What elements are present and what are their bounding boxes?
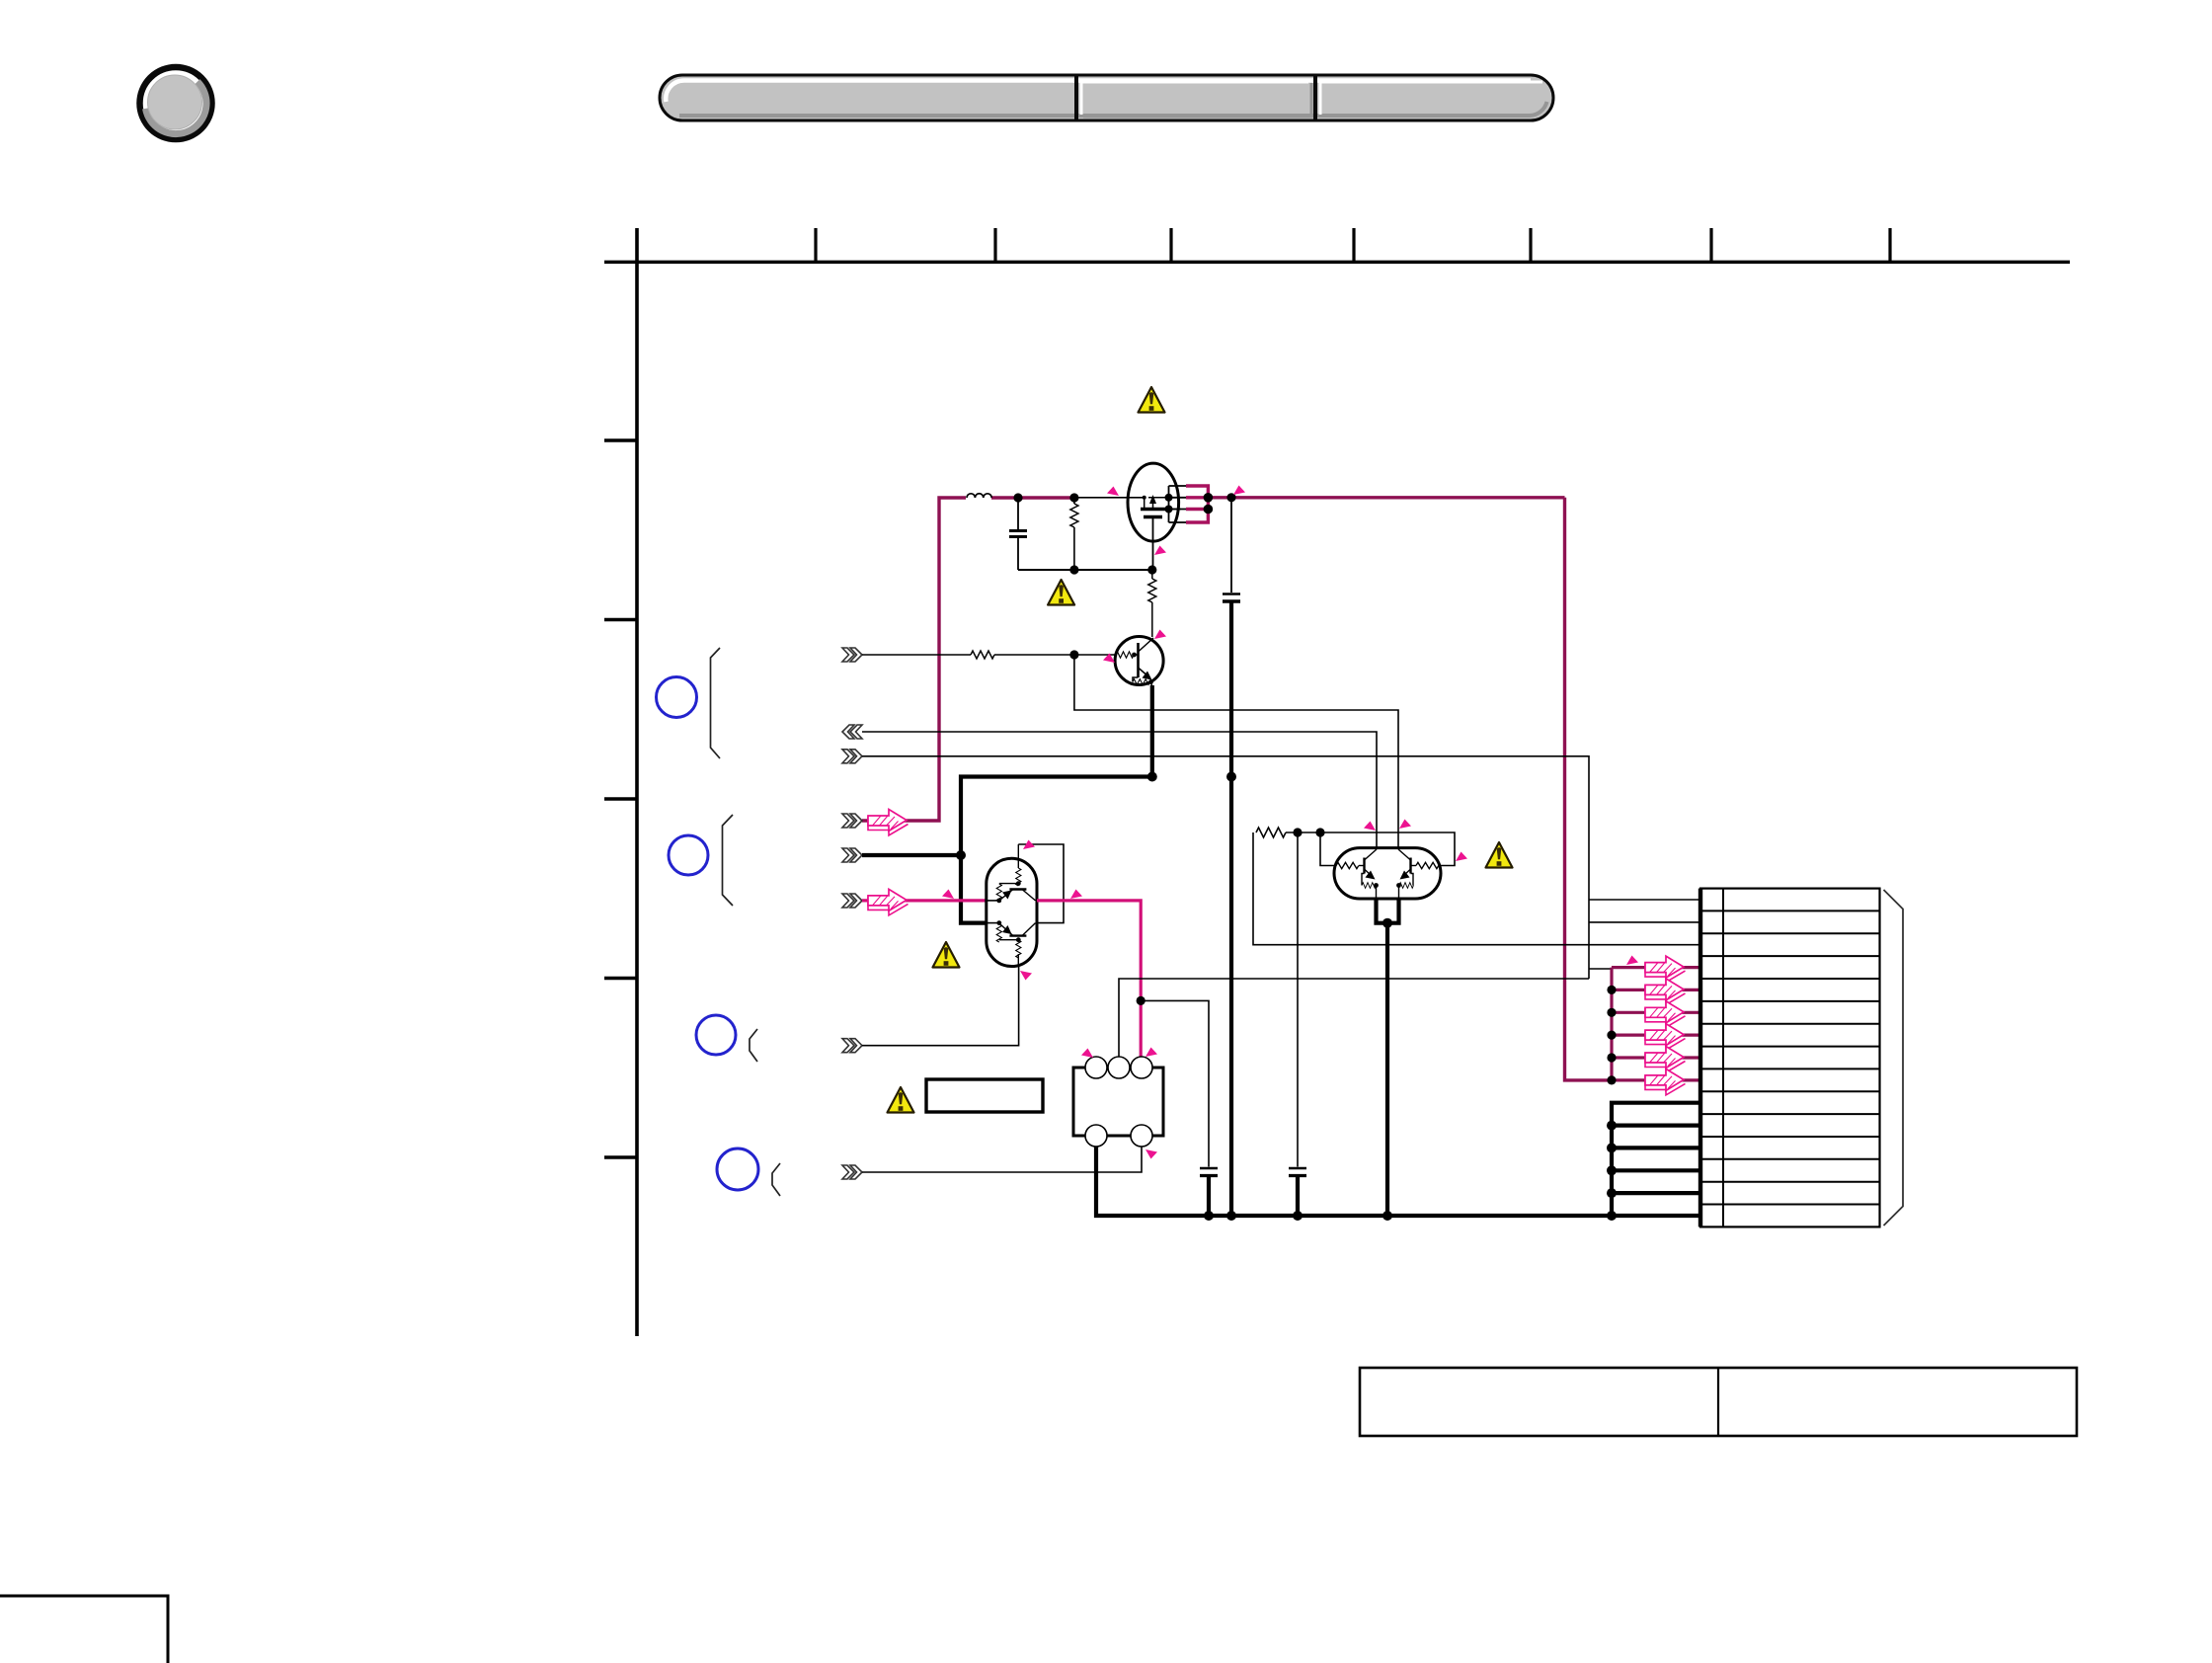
input chevron 1 — [842, 648, 862, 662]
wire: Q2 package loop — [1018, 844, 1064, 923]
wire: drain jumper (magenta E) — [1186, 486, 1208, 522]
resistor R3 (feedback loop) — [1256, 828, 1320, 837]
input chevron 4 — [842, 814, 862, 828]
input chevron 6 — [842, 894, 862, 908]
wire: Q1 base junction drop — [1074, 655, 1398, 848]
wire: main supply bus (dark magenta) — [862, 498, 1612, 1080]
warning triangle W3 — [933, 942, 960, 968]
bracket 2 — [723, 815, 734, 906]
signal flag f2 — [1233, 486, 1245, 496]
junction dot L — [1382, 918, 1392, 928]
bottom-left corner box — [0, 1596, 168, 1663]
wire: Q3 emitter to ground bus — [1385, 923, 1389, 1216]
signal flag f7 — [942, 890, 954, 900]
inductor L1 — [967, 494, 991, 498]
junction dot K — [1315, 828, 1324, 836]
junction dots on magenta rail — [1607, 986, 1616, 1085]
wire: loop left drop to connector — [1253, 832, 1700, 945]
junction dot O — [1226, 1211, 1236, 1221]
junction dot J — [1293, 828, 1302, 836]
blue callout circle 4 — [717, 1148, 758, 1190]
signal flag f15 — [1145, 1048, 1157, 1058]
junction dot H — [1226, 772, 1236, 782]
signal flag f8 — [1070, 890, 1082, 900]
capacitor C1 — [1009, 498, 1027, 570]
signal flag f9 — [1020, 971, 1032, 981]
junction dot F — [1069, 650, 1078, 659]
wire: chevron6 magenta to Q2 — [862, 899, 987, 902]
junction dot Q — [1382, 1211, 1392, 1221]
wire: chevron3 line — [862, 756, 1589, 979]
wire: chevron8 line — [862, 1147, 1142, 1172]
wire: relay coil return (thick) — [1096, 1147, 1700, 1216]
signal flag f11 — [1399, 820, 1411, 830]
signal arrow In2 — [868, 889, 908, 915]
MOSFET Q5 — [1128, 463, 1181, 570]
wire: thick emitter bus — [961, 777, 1152, 923]
relay RY1 — [1073, 1057, 1163, 1147]
junction dot E — [1147, 565, 1156, 574]
blue callout circle 3 — [696, 1015, 736, 1055]
transistor Q3 (dual digital, right) — [1334, 848, 1441, 901]
bottom-right revision table — [1360, 1368, 2077, 1436]
signal flag f13 — [1626, 956, 1638, 966]
wire: Q3 emitter U (thick) — [1377, 898, 1399, 923]
wire: relay sense loop — [1119, 979, 1589, 1057]
junction dot I — [956, 850, 966, 860]
warning triangle W4 — [888, 1087, 914, 1113]
wire: black jog to magenta rail — [1589, 969, 1612, 990]
signal flag f6 — [1023, 840, 1035, 850]
signal flag f16 — [1145, 1149, 1157, 1159]
blue callout circle 1 — [657, 677, 697, 718]
capacitor C4 — [1289, 1168, 1306, 1216]
wire: Q3 package loop right — [1320, 832, 1455, 866]
junction dot G — [1147, 772, 1157, 782]
schematic frame: top border line — [604, 261, 2070, 264]
bracket 4 — [772, 1163, 780, 1196]
junction dots on ground comb — [1607, 1121, 1617, 1221]
signal arrow In1 — [868, 810, 908, 836]
junction dot N — [1204, 1211, 1214, 1221]
input chevron 7 — [842, 1039, 862, 1053]
signal flag f10 — [1364, 822, 1376, 831]
wire: magenta distribution rail — [1612, 968, 1700, 1080]
junction dot B — [1069, 493, 1078, 502]
wire: connector feed row1 — [1589, 899, 1700, 901]
warning triangle W2 — [1048, 580, 1074, 605]
resistor R1 — [1070, 498, 1078, 570]
wire: Q2 output magenta — [1037, 901, 1141, 1057]
signal flag f4 — [1154, 630, 1166, 640]
MOSFET drain pin frame — [1169, 486, 1189, 522]
3-segment gray toolbar — [660, 75, 1553, 120]
resistor R2 (source-collector) — [1148, 570, 1156, 637]
signal arrows into connector — [1645, 956, 1686, 1095]
input chevron 2 (reverse) — [842, 725, 862, 739]
input chevron 5 — [842, 848, 862, 862]
wire: connector feed row2 — [1589, 921, 1700, 923]
junction dots at drain — [1204, 493, 1214, 503]
wire: Q1 emitter (thick) — [1150, 685, 1154, 777]
blue callout circle 2 — [669, 835, 708, 875]
wire: thick ground comb rail — [1612, 1103, 1700, 1216]
wire: loop to Q3 left base — [1320, 832, 1335, 866]
schematic frame: left border line — [635, 228, 639, 1336]
capacitor C3 — [1200, 1168, 1218, 1216]
label box — [926, 1079, 1043, 1112]
wire: base line to Q1 — [862, 651, 1117, 659]
junction dot A — [1013, 493, 1022, 502]
signal flag f5 — [1103, 654, 1115, 664]
signal flag f12 — [1456, 852, 1467, 862]
frame tick marks on left border — [604, 440, 636, 1157]
bracket 3 — [750, 1029, 757, 1062]
frame tick marks on top border — [816, 228, 1890, 262]
warning triangle W5 — [1486, 842, 1513, 868]
junction dot C — [1226, 493, 1235, 502]
wire: chevron2 line — [862, 732, 1377, 848]
warning triangle W1 — [1139, 387, 1165, 413]
connector bracket — [1884, 890, 1904, 1226]
signal flag f14 — [1081, 1049, 1093, 1059]
input chevron 8 — [842, 1165, 862, 1179]
wire: gate feed — [1074, 497, 1145, 499]
transistor Q2 (dual digital, left) — [987, 844, 1037, 967]
junction dot P — [1293, 1211, 1303, 1221]
signal flag f1 — [1107, 487, 1119, 497]
wire: lower rail of input filter — [1018, 569, 1152, 571]
transistor Q1 (digital) — [1115, 637, 1163, 688]
wire: chevron5 thick line — [862, 853, 961, 857]
signal flag f3 — [1154, 546, 1166, 556]
capacitor C2 (snubber) — [1223, 498, 1240, 1216]
wire: chevron7 line — [862, 967, 1019, 1046]
wire: to capacitor C3 — [1141, 1000, 1209, 1166]
bracket 1 — [711, 648, 721, 758]
junction dot D — [1069, 565, 1078, 574]
input chevron 3 — [842, 750, 862, 763]
connector CN1 — [1700, 889, 1880, 1227]
3D round button top-left — [140, 67, 212, 139]
junction dot M — [1137, 996, 1145, 1005]
wire: C4 feed — [1297, 832, 1299, 1167]
